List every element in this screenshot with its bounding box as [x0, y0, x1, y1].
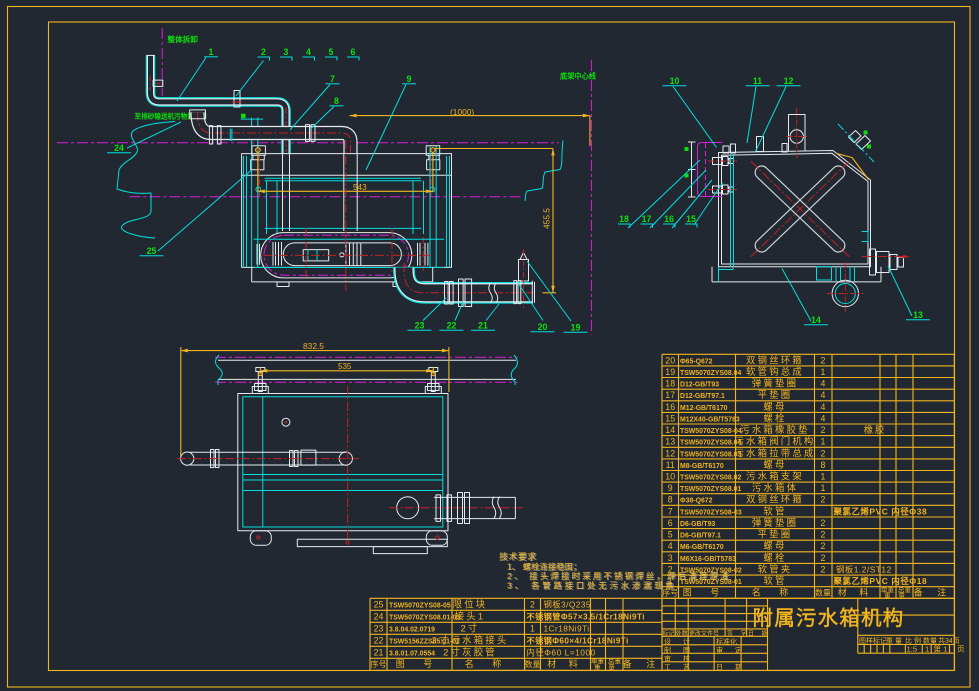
svg-text:25: 25 — [147, 246, 157, 256]
tank inner wall right cyan — [446, 156, 448, 267]
svg-text:1、 螺栓连接稳固；: 1、 螺栓连接稳固； — [507, 561, 581, 571]
svg-text:M6-GB/T6170: M6-GB/T6170 — [680, 544, 724, 551]
filler centerlines — [787, 136, 808, 138]
base flange left wall — [711, 267, 713, 282]
svg-text:3、 各管路接口处无污水渗漏现象.: 3、 各管路接口处无污水渗漏现象. — [507, 580, 682, 590]
hose hook stub — [519, 260, 529, 282]
weld mark green square d — [685, 174, 689, 178]
outlet elbow and discharge pipe — [404, 268, 533, 293]
skirt bump right — [426, 531, 447, 546]
flange reference line white — [691, 142, 693, 197]
datum line: chassis plane (magenta horizontal upper) — [57, 142, 559, 144]
svg-text:M12X40-GB/T5783: M12X40-GB/T5783 — [680, 416, 740, 423]
svg-text:软管: 软管 — [763, 575, 786, 586]
inner wall cyan left — [730, 154, 732, 266]
svg-text:7: 7 — [668, 506, 673, 516]
rail magenta centerline top — [215, 356, 518, 358]
svg-text:D6-GB/T97.1: D6-GB/T97.1 — [680, 533, 721, 540]
svg-text:24: 24 — [374, 611, 384, 621]
svg-text:(1000): (1000) — [450, 107, 474, 117]
svg-text:数量: 数量 — [815, 588, 831, 598]
svg-text:标准化: 标准化 — [716, 637, 737, 646]
svg-text:TSW5070ZYS08.02: TSW5070ZYS08.02 — [680, 475, 741, 482]
svg-text:6: 6 — [351, 47, 356, 57]
svg-text:2: 2 — [821, 541, 826, 551]
corner fitting parallelogram 1 — [849, 131, 862, 143]
drain sleeve cyan pair — [835, 267, 837, 282]
svg-text:1Cr18Ni9Ti: 1Cr18Ni9Ti — [544, 623, 590, 633]
rivet center red — [346, 541, 349, 544]
svg-text:10: 10 — [665, 472, 675, 482]
svg-text:2: 2 — [530, 599, 535, 609]
svg-text:1: 1 — [821, 472, 826, 482]
svg-text:9: 9 — [407, 74, 412, 84]
svg-text:名 称: 名 称 — [752, 587, 797, 598]
liner cyan lines through drum — [254, 238, 445, 240]
svg-text:3: 3 — [284, 47, 289, 57]
svg-text:备 注: 备 注 — [914, 587, 953, 598]
svg-text:2: 2 — [821, 495, 826, 505]
break line torn edge left — [117, 122, 175, 239]
svg-text:序号: 序号 — [371, 659, 387, 669]
datum line: chassis centerline (magenta vertical right) — [590, 60, 592, 335]
chamfer weld seam yellow — [836, 153, 869, 179]
drum inner stadium — [283, 243, 401, 266]
svg-text:TSW5070ZYS08.04: TSW5070ZYS08.04 — [680, 440, 741, 447]
tank box inner cyan — [243, 397, 443, 527]
hose clamp on pipe 1 — [153, 80, 163, 86]
svg-text:1: 1 — [530, 623, 535, 633]
svg-text:1: 1 — [925, 645, 929, 654]
svg-text:审 核: 审 核 — [664, 654, 695, 663]
svg-text:聚氯乙烯PVC 内径Φ18: 聚氯乙烯PVC 内径Φ18 — [833, 576, 928, 586]
svg-text:20: 20 — [665, 355, 675, 365]
svg-text:8: 8 — [821, 460, 826, 470]
svg-text:22: 22 — [447, 321, 457, 331]
svg-text:14: 14 — [811, 315, 821, 325]
corner gusset cyan bottom-left — [719, 267, 734, 282]
svg-text:TSW5070ZYS08-05: TSW5070ZYS08-05 — [389, 602, 451, 609]
svg-text:重 量: 重 量 — [886, 637, 902, 645]
outlet flange pair — [459, 279, 464, 307]
svg-text:TSW5070ZYS08.01-03: TSW5070ZYS08.01-03 — [389, 614, 460, 621]
inlet bolt cluster lower — [713, 186, 722, 193]
svg-text:1: 1 — [821, 367, 826, 377]
svg-text:附属污水箱机构: 附属污水箱机构 — [753, 607, 905, 630]
drum centerline red horizontal — [263, 254, 430, 256]
discharge flange pair — [458, 493, 463, 524]
skirt right wall — [432, 267, 434, 282]
svg-text:12: 12 — [665, 448, 675, 458]
discharge centerline red — [389, 507, 523, 509]
tank end view outer shell — [719, 151, 871, 267]
svg-text:限位块: 限位块 — [453, 598, 488, 609]
svg-text:2: 2 — [821, 518, 826, 528]
dimension 455.5 — [434, 148, 553, 150]
hanger tab right — [425, 387, 441, 394]
svg-text:共34页: 共34页 — [938, 636, 960, 645]
outlet clamp pair — [445, 282, 449, 305]
svg-text:2: 2 — [261, 47, 266, 57]
pipe 2 continuation inside tank — [343, 154, 345, 231]
svg-text:不锈钢管Φ57×3.5/1Cr18Ni9Ti: 不锈钢管Φ57×3.5/1Cr18Ni9Ti — [527, 611, 645, 621]
svg-text:M8-GB/T6170: M8-GB/T6170 — [680, 463, 724, 470]
discharge pipe edges — [434, 496, 515, 498]
BOM table bottom text — [371, 598, 662, 671]
svg-text:D6-GB/T93: D6-GB/T93 — [680, 521, 715, 528]
svg-text:图样标记: 图样标记 — [859, 636, 887, 645]
svg-text:弹簧垫圈: 弹簧垫圈 — [752, 378, 798, 389]
top corner bolt cluster — [723, 146, 729, 153]
pipe 1: suction hose upper run — [151, 56, 287, 154]
svg-text:TSW5070ZYS08.03: TSW5070ZYS08.03 — [680, 451, 741, 458]
svg-text:2: 2 — [821, 565, 826, 575]
tank centerline red vertical — [345, 140, 347, 291]
svg-text:螺栓: 螺栓 — [763, 412, 786, 423]
svg-text:M6X16-GB/T5783: M6X16-GB/T5783 — [680, 556, 736, 563]
cyan bar on pipe 2 — [229, 129, 231, 141]
inlet flange profile magenta — [698, 143, 723, 197]
svg-text:4: 4 — [668, 541, 673, 551]
svg-text:5: 5 — [329, 47, 334, 57]
agitator coupling box — [301, 450, 316, 465]
base flange right wall — [880, 267, 882, 282]
bracket cyan right wall — [862, 232, 869, 242]
svg-text:6: 6 — [668, 518, 673, 528]
svg-text:2: 2 — [821, 448, 826, 458]
svg-text:455.5: 455.5 — [542, 208, 552, 229]
drum right mount centerline — [422, 237, 424, 271]
svg-text:535: 535 — [338, 362, 352, 371]
rail break right — [511, 355, 517, 385]
svg-text:D12-GB/T97.1: D12-GB/T97.1 — [680, 393, 725, 400]
svg-text:聚氯乙烯PVC 内径Φ38: 聚氯乙烯PVC 内径Φ38 — [833, 506, 928, 516]
svg-text:污水箱橡胶垫: 污水箱橡胶垫 — [740, 424, 809, 435]
drum baffle centerline right — [391, 228, 393, 272]
svg-text:832.5: 832.5 — [303, 341, 324, 351]
svg-text:D12-GB/T93: D12-GB/T93 — [680, 382, 719, 389]
pipe 2 left end flange — [190, 110, 206, 119]
svg-text:软管: 软管 — [763, 505, 786, 516]
svg-text:页: 页 — [957, 645, 965, 654]
svg-text:双钢丝环箍: 双钢丝环箍 — [746, 494, 804, 505]
svg-text:标记: 标记 — [663, 630, 675, 638]
svg-text:3: 3 — [668, 553, 673, 563]
valve centerline red with arrow — [862, 256, 910, 258]
inlet bolt cluster upper — [713, 158, 722, 165]
svg-text:18: 18 — [665, 379, 675, 389]
top edge tab — [757, 137, 764, 152]
svg-text:2: 2 — [821, 553, 826, 563]
pipe 1 drop centerline red — [285, 107, 287, 152]
svg-text:9: 9 — [668, 483, 673, 493]
drain cyan ring — [835, 284, 855, 304]
svg-text:审 定: 审 定 — [716, 645, 747, 654]
cross brace X bar 1 — [753, 163, 848, 254]
svg-text:15: 15 — [686, 214, 696, 224]
svg-text:4: 4 — [821, 413, 826, 423]
pipe 2 centerline red — [198, 112, 351, 154]
drum outer stadium — [261, 233, 412, 278]
drum left mount bars — [256, 244, 258, 265]
svg-text:名 称: 名 称 — [465, 658, 510, 669]
svg-text:TSW5070ZYS08-03: TSW5070ZYS08-03 — [680, 509, 742, 516]
svg-text:污水箱体: 污水箱体 — [752, 482, 798, 493]
svg-text:材 料: 材 料 — [547, 658, 583, 669]
discharge clamp bars — [436, 495, 441, 522]
svg-text:技术要求: 技术要求 — [499, 551, 537, 562]
svg-text:螺栓: 螺栓 — [763, 552, 786, 563]
svg-text:4: 4 — [306, 47, 311, 57]
drain outer ring — [832, 280, 858, 306]
svg-text:设 计: 设 计 — [664, 637, 695, 646]
mount bolt left — [256, 368, 265, 372]
pipe 2: sewage hose lower run — [198, 112, 351, 154]
svg-text:13: 13 — [913, 310, 923, 320]
svg-text:23: 23 — [374, 623, 384, 633]
svg-text:2: 2 — [821, 355, 826, 365]
outlet centerline red — [404, 263, 535, 293]
filler opening circle — [790, 130, 803, 143]
svg-text:螺母: 螺母 — [763, 459, 786, 470]
svg-text:2: 2 — [821, 425, 826, 435]
svg-text:第 1: 第 1 — [934, 644, 948, 654]
svg-text:8: 8 — [668, 495, 673, 505]
svg-text:19: 19 — [571, 323, 581, 333]
BOM table bottom grid — [370, 598, 662, 670]
X brace diagonal centerline 2 — [751, 162, 849, 257]
svg-text:4: 4 — [821, 390, 826, 400]
dimension 543 — [256, 148, 261, 153]
svg-text:污水箱支架: 污水箱支架 — [746, 471, 804, 482]
skirt bottom plate — [252, 281, 433, 283]
X brace diagonal centerline 1 — [751, 162, 849, 257]
svg-text:2、 接头焊接时采用不锈钢焊丝，焊后清理焊渣: 2、 接头焊接时采用不锈钢焊丝，焊后清理焊渣 — [507, 571, 730, 581]
agitator pipe left — [190, 451, 346, 453]
discharge wave break — [492, 497, 496, 519]
svg-text:图 号: 图 号 — [683, 588, 728, 598]
svg-text:工 艺: 工 艺 — [664, 663, 695, 671]
svg-text:软管夹: 软管夹 — [758, 564, 793, 575]
dip tube right cyan — [412, 181, 414, 234]
inner partition cyan — [262, 397, 264, 527]
strap lines cyan — [243, 474, 443, 476]
valve assembly body — [870, 249, 876, 275]
svg-text:材 料: 材 料 — [838, 587, 874, 598]
svg-text:20: 20 — [538, 322, 548, 332]
svg-text:TSW5070ZYS08-04: TSW5070ZYS08-04 — [680, 428, 742, 435]
skirt foot right — [393, 282, 405, 287]
svg-text:4: 4 — [821, 379, 826, 389]
drum baffle centerline left — [305, 228, 307, 278]
tank end view inner shell — [722, 153, 869, 264]
svg-text:1: 1 — [209, 47, 214, 57]
svg-text:平垫圈: 平垫圈 — [758, 389, 793, 400]
pipe joint item2 — [234, 91, 240, 108]
svg-text:11: 11 — [753, 76, 762, 86]
svg-text:1: 1 — [821, 437, 826, 447]
hanger bracket left — [252, 146, 266, 156]
svg-text:17: 17 — [642, 214, 652, 224]
svg-text:16: 16 — [665, 402, 675, 412]
svg-text:25: 25 — [374, 599, 384, 609]
base flange bottom plate — [712, 281, 881, 283]
svg-text:日 期: 日 期 — [716, 663, 747, 671]
svg-text:处数: 处数 — [676, 630, 688, 638]
dimension 832.5 — [180, 347, 182, 456]
svg-text:1: 1 — [821, 483, 826, 493]
rail bottom edge — [218, 378, 516, 380]
svg-text:8: 8 — [334, 96, 339, 106]
svg-text:22: 22 — [374, 635, 384, 645]
mount bolt right — [429, 368, 438, 372]
title block grid — [662, 598, 954, 670]
tank lid seam — [242, 174, 452, 176]
svg-text:Φ65-Q672: Φ65-Q672 — [680, 358, 713, 365]
skirt bottom plate — [297, 539, 447, 546]
svg-text:11: 11 — [666, 460, 675, 470]
drain sleeve cyan bottom — [817, 267, 832, 280]
svg-text:2寸灰胶管: 2寸灰胶管 — [443, 646, 497, 657]
dimension 535 — [259, 367, 261, 374]
datum line: removal centerline (magenta vertical) — [161, 28, 163, 96]
svg-text:3.8.01.07.0554: 3.8.01.07.0554 — [389, 650, 435, 657]
svg-text:整体拆卸: 整体拆卸 — [167, 34, 199, 44]
rail top edge — [218, 359, 516, 361]
tank outer shell — [242, 154, 452, 268]
weld mark green square c — [685, 147, 689, 151]
tank vertical centerline red — [347, 386, 349, 540]
drum stadium magenta dashed — [264, 235, 409, 275]
svg-text:10: 10 — [670, 76, 680, 86]
svg-text:24: 24 — [114, 143, 124, 153]
svg-text:不锈钢Φ60×4/1Cr18Ni9Ti: 不锈钢Φ60×4/1Cr18Ni9Ti — [527, 635, 629, 645]
svg-text:更改文件号: 更改文件号 — [689, 630, 719, 638]
skirt foot left — [277, 282, 289, 287]
discharge boss circle — [397, 497, 419, 519]
skirt tab — [373, 547, 427, 554]
BOM table right text — [662, 354, 952, 600]
weld mark green square a — [864, 131, 868, 135]
svg-text:重 量: 重 量 — [594, 664, 618, 672]
svg-text:弹簧垫圈: 弹簧垫圈 — [752, 517, 798, 528]
svg-text:5: 5 — [668, 530, 673, 540]
tank strap rods right cyan — [429, 146, 431, 267]
corner fitting axis cyan dash — [838, 124, 874, 162]
svg-text:16: 16 — [664, 214, 674, 224]
weld mark green square — [241, 114, 246, 119]
weld mark green square b — [867, 145, 871, 149]
agitator flange — [211, 450, 215, 468]
svg-text:15: 15 — [665, 413, 675, 423]
drum internal frame — [303, 250, 329, 261]
svg-text:2: 2 — [821, 530, 826, 540]
svg-text:TSW5070ZYS08.01: TSW5070ZYS08.01 — [680, 486, 741, 493]
svg-text:钢板3/Q235: 钢板3/Q235 — [544, 599, 591, 609]
rail break left — [216, 355, 223, 385]
svg-text:螺母: 螺母 — [763, 540, 786, 551]
tank inner wall left cyan — [243, 156, 245, 267]
tank box outer — [238, 394, 448, 531]
svg-text:污水箱拉带总成: 污水箱拉带总成 — [734, 447, 815, 458]
filler pipe stub — [789, 115, 806, 152]
svg-text:污水箱阀门机构: 污水箱阀门机构 — [734, 436, 815, 447]
agitator coupling bars — [290, 451, 294, 467]
drum right mount bars — [417, 243, 419, 266]
drum center bars — [345, 243, 347, 266]
svg-text:4: 4 — [821, 402, 826, 412]
svg-text:平垫圈: 平垫圈 — [758, 529, 793, 540]
outlet wave break — [489, 283, 493, 303]
svg-text:日 期: 日 期 — [748, 630, 771, 638]
corner fitting parallelogram 2 — [856, 136, 871, 150]
svg-text:内径Φ60 L=1000: 内径Φ60 L=1000 — [527, 647, 596, 657]
svg-text:螺母: 螺母 — [763, 401, 786, 412]
rail magenta centerline bottom — [215, 381, 518, 383]
svg-text:18: 18 — [619, 214, 629, 224]
rivet left red — [257, 536, 260, 539]
cross brace X bar 2 — [753, 163, 848, 254]
svg-text:M12-GB/T6170: M12-GB/T6170 — [680, 405, 728, 412]
skirt left wall — [251, 267, 253, 282]
svg-text:软管钩总成: 软管钩总成 — [746, 366, 804, 377]
dimension (1000) — [350, 115, 590, 117]
svg-text:橡胶: 橡胶 — [864, 424, 886, 435]
drain centerlines — [827, 293, 864, 295]
drum axle circle — [340, 253, 344, 257]
svg-text:14: 14 — [665, 425, 675, 435]
skirt bump left — [250, 531, 271, 546]
svg-text:2寸污水箱接头: 2寸污水箱接头 — [432, 634, 509, 645]
svg-text:13: 13 — [665, 437, 675, 447]
svg-text:12: 12 — [784, 76, 794, 86]
hose clamp pair on pipe 2 right — [306, 125, 310, 142]
svg-text:17: 17 — [665, 390, 675, 400]
outlet end cap — [531, 281, 533, 304]
dip tube left cyan — [266, 181, 268, 234]
svg-text:底架中心线: 底架中心线 — [560, 72, 597, 81]
svg-text:数量: 数量 — [525, 659, 541, 669]
svg-text:数量: 数量 — [923, 636, 937, 645]
hanger bracket right — [426, 146, 440, 156]
views placeholder — [57, 28, 597, 335]
svg-text:备 注: 备 注 — [623, 658, 662, 669]
datum line: frame plane (magenta horizontal lower) — [129, 196, 523, 198]
svg-text:7: 7 — [330, 74, 335, 84]
title block text — [663, 607, 966, 671]
hose clamp pair on pipe 2 left — [209, 126, 212, 144]
svg-text:签 字: 签 字 — [727, 630, 750, 638]
agitator centerline red — [177, 458, 359, 460]
rivet right red — [436, 536, 439, 539]
svg-text:19: 19 — [665, 367, 675, 377]
svg-text:钢板1.2/ST12: 钢板1.2/ST12 — [836, 565, 892, 575]
svg-text:1:5: 1:5 — [907, 645, 918, 654]
svg-text:比 例: 比 例 — [905, 636, 921, 645]
BOM table right grid — [662, 354, 954, 598]
svg-text:543: 543 — [353, 183, 367, 192]
top mid small rect — [782, 144, 787, 153]
sight plug circle — [282, 418, 290, 426]
svg-text:双钢丝环箍: 双钢丝环箍 — [746, 354, 804, 365]
svg-text:21: 21 — [374, 647, 384, 657]
svg-text:Φ38-Q672: Φ38-Q672 — [680, 498, 713, 505]
svg-text:3.8.04.02.0719: 3.8.04.02.0719 — [389, 626, 435, 633]
pipe 1 top cap — [146, 54, 155, 56]
hanger tab left — [252, 387, 268, 394]
svg-text:图 号: 图 号 — [396, 659, 441, 669]
svg-text:21: 21 — [478, 321, 488, 331]
